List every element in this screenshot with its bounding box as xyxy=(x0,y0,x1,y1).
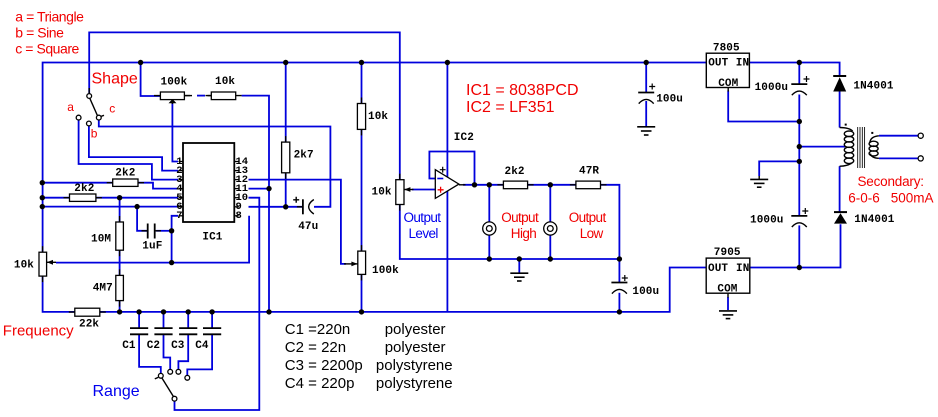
svg-text:OUT: OUT xyxy=(708,58,728,70)
svg-text:100k: 100k xyxy=(372,265,399,277)
resistor 2k2 (pin 5 row) xyxy=(64,194,102,201)
svg-text:8: 8 xyxy=(236,210,242,222)
svg-text:IC2: IC2 xyxy=(454,132,474,144)
wire C3 top lead xyxy=(187,312,189,328)
svg-text:500mA: 500mA xyxy=(891,191,934,206)
svg-text:7905: 7905 xyxy=(714,247,741,259)
wire bus row to IC1 pin 6 xyxy=(42,206,178,208)
svg-text:IN: IN xyxy=(736,58,749,70)
regulator 7905 xyxy=(706,258,750,297)
svg-text:a: a xyxy=(67,100,74,114)
capacitor C4 220p xyxy=(203,328,221,334)
svg-text:1N4001: 1N4001 xyxy=(853,81,894,93)
terminal (secondary top) xyxy=(918,133,923,138)
wire 2k7 bottom lead to pin 9 node xyxy=(285,173,287,207)
capacitor 1000u (raw -V) xyxy=(791,208,808,227)
wire C4 top lead xyxy=(211,312,213,328)
capacitor C2 22n xyxy=(154,328,172,334)
svg-text:7805: 7805 xyxy=(713,43,740,55)
potentiometer 10k output level xyxy=(396,174,414,211)
resistor 2k7 xyxy=(282,136,290,179)
wire switch contact c to 47u coupling cap (square wave) xyxy=(99,120,331,207)
wire output high socket to ground rail xyxy=(488,235,490,259)
resistor 10k (vertical, pin11 node to +5V) xyxy=(357,98,365,136)
wire 2k7 top lead from +5V rail xyxy=(285,63,287,143)
svg-text:6-0-6: 6-0-6 xyxy=(848,191,880,206)
diode D1 1N4001 (+V rectifier) xyxy=(833,76,846,92)
gang link black lead stubs xyxy=(184,95,211,97)
wire output level wiper to IC2 non-inverting input xyxy=(412,189,435,191)
regulator 7805 xyxy=(706,53,749,91)
svg-text:10k: 10k xyxy=(372,187,392,199)
wire 7805 IN to raw +V node and top diode xyxy=(749,63,839,76)
wire transformer secondary bottom lead xyxy=(879,157,918,159)
svg-text:OUT: OUT xyxy=(708,263,728,275)
resistor 10k (ganged with 100k) xyxy=(206,92,242,100)
svg-text:1000u: 1000u xyxy=(750,214,784,226)
wire C1 bottom to range contact A xyxy=(139,335,161,374)
wire ground stem on output ground rail xyxy=(518,259,520,273)
ground (output sockets) xyxy=(510,273,528,281)
IC1 pin numbers right xyxy=(236,156,249,222)
svg-text:1uF: 1uF xyxy=(142,240,162,252)
wire IC1 pin 8 loop down to frequency wiper line xyxy=(56,216,249,263)
wire +5V tap to 100k pot left end xyxy=(141,63,161,97)
capacitor 100u (op-amp -5V rail) xyxy=(611,275,627,294)
svg-text:10k: 10k xyxy=(368,111,388,123)
wire 100u smoothing cap to ground xyxy=(645,101,647,126)
wire C1 top lead xyxy=(138,312,140,328)
wire C3 bottom to range contact C xyxy=(178,335,188,370)
wire output low socket to ground rail xyxy=(549,235,551,259)
wire 1000u top cap to COM/centre-tap column xyxy=(798,95,800,216)
svg-text:COM: COM xyxy=(717,284,737,296)
capacitor 1000u (raw +V) xyxy=(791,76,809,95)
wire ground rail from output level pot bottom to 100u cap xyxy=(400,205,620,260)
capacitor C1 220n xyxy=(130,328,148,334)
svg-text:b = Sine: b = Sine xyxy=(15,25,64,41)
wire IC2 output row through 2k2 and 47R xyxy=(463,185,619,259)
svg-text:100u: 100u xyxy=(656,93,683,105)
wire transformer bottom to bottom diode xyxy=(839,166,841,211)
capacitor 1uF xyxy=(142,224,162,239)
wire C4 bottom to range contact D xyxy=(187,335,212,376)
wire C2 top lead xyxy=(163,312,165,328)
svg-text:Secondary:: Secondary: xyxy=(858,174,924,189)
svg-text:COM: COM xyxy=(718,78,738,90)
svg-text:C4 = 220p: C4 = 220p xyxy=(285,375,355,392)
svg-text:IN: IN xyxy=(736,263,749,275)
IC1 pin stubs left 1-7 xyxy=(179,162,184,216)
svg-text:100u: 100u xyxy=(632,286,659,298)
switch range (1-pole 4-way) xyxy=(155,369,190,401)
resistor 10M xyxy=(116,216,124,256)
op-amp U1 IC2 LF351 triangle xyxy=(435,167,465,199)
wire 100u cap top lead xyxy=(618,259,620,282)
resistor 47R (output low) xyxy=(570,181,607,189)
wire output high socket drop xyxy=(488,185,490,222)
svg-text:4M7: 4M7 xyxy=(93,283,113,295)
wire 100k pot wiper down to IC1 pin 1 xyxy=(172,103,178,162)
svg-text:polyester: polyester xyxy=(385,339,446,356)
svg-text:b: b xyxy=(91,127,98,141)
ground (7905 COM) xyxy=(719,311,737,319)
svg-text:100k: 100k xyxy=(161,76,188,88)
svg-text:polystyrene: polystyrene xyxy=(376,357,453,374)
svg-text:IC1: IC1 xyxy=(202,231,222,243)
wire output low socket drop xyxy=(549,185,551,222)
svg-text:47R: 47R xyxy=(579,165,599,177)
svg-text:Range: Range xyxy=(93,383,140,400)
svg-text:High: High xyxy=(511,226,536,241)
svg-text:Level: Level xyxy=(409,226,439,241)
svg-text:2k2: 2k2 xyxy=(505,166,525,178)
wire raw +V node down through 1000u cap xyxy=(798,63,800,84)
wire -5V rail: 10k pot bottom along bottom to 7905 OUT xyxy=(43,268,707,312)
svg-text:22k: 22k xyxy=(79,318,99,330)
wire IC2 V- supply down to -5V rail xyxy=(446,191,448,312)
capacitor 47u electrolytic (square wave coupling) xyxy=(293,197,314,215)
wire centre column ground branch xyxy=(759,161,799,176)
terminal (secondary bottom) xyxy=(918,156,923,161)
svg-text:IC2 = LF351: IC2 = LF351 xyxy=(466,99,555,116)
svg-text:c: c xyxy=(109,101,115,115)
wire 1uF right plate to junction xyxy=(156,230,171,232)
wire IC2 V+ supply from +5V rail xyxy=(446,63,448,178)
svg-text:2k2: 2k2 xyxy=(74,183,94,195)
svg-text:Output: Output xyxy=(569,210,607,225)
svg-text:Output: Output xyxy=(501,210,539,225)
svg-text:47u: 47u xyxy=(298,221,318,233)
resistor 4M7 xyxy=(116,269,124,306)
svg-text:C3 = 2200p: C3 = 2200p xyxy=(285,357,363,374)
svg-text:1000u: 1000u xyxy=(755,82,789,94)
ground (centre tap) xyxy=(750,176,768,187)
wire 100k pot bottom to -5V rail xyxy=(361,274,363,312)
IC1 pin stubs right 8-14 xyxy=(234,162,239,216)
svg-text:Low: Low xyxy=(580,226,604,241)
capacitor C3 2200p xyxy=(179,328,197,334)
wire bus row through 2k2 to IC1 pin 4 xyxy=(42,183,178,189)
wire 10M bottom to 4M7 top xyxy=(119,250,121,275)
diode D2 1N4001 (-V rectifier) xyxy=(834,212,847,224)
wire 10k right end down to IC1 pin 11 and -5V rail xyxy=(242,96,269,312)
svg-text:polystyrene: polystyrene xyxy=(376,375,453,392)
svg-text:Shape: Shape xyxy=(92,71,138,88)
svg-text:7: 7 xyxy=(176,210,182,222)
wire +5V rail down to 10k vertical resistor xyxy=(361,63,363,104)
switch shape (1-pole 3-way) xyxy=(76,88,104,126)
svg-text:2k7: 2k7 xyxy=(294,150,314,162)
wire raw -V row: 7905 IN to bottom diode xyxy=(750,224,841,267)
wire IC2 feedback loop to inverting input xyxy=(429,152,474,185)
svg-text:Output: Output xyxy=(404,210,442,225)
svg-text:IC1 = 8038PCD: IC1 = 8038PCD xyxy=(466,82,579,99)
wire IC1 pin 9 to 2k7 bottom and 47u left plate xyxy=(249,206,303,208)
capacitor 100u (7805 output smoothing) xyxy=(638,84,655,104)
IC1 pin numbers left xyxy=(176,156,182,222)
ground (100u smoothing) xyxy=(637,127,655,135)
wire IC1 pin 12 to 100k output pot wiper xyxy=(249,180,347,264)
wire 1000u bottom cap to raw -V row xyxy=(798,225,800,267)
wire switch contact a to IC1 pin 3 (triangle) xyxy=(79,120,178,180)
potentiometer 100k (coarse frequency, ganged) xyxy=(154,92,190,104)
wire +5V rail: left bus down to 10k pot, across top to 7805 OUT xyxy=(43,63,707,253)
wire centre tap to transformer xyxy=(799,146,845,148)
wire top diode to transformer top xyxy=(839,92,841,128)
wire pin5 node down to 10M top xyxy=(119,198,121,222)
svg-text:C3: C3 xyxy=(171,340,185,352)
wire bus row through 2k2 to IC1 pin 5 xyxy=(42,197,178,199)
IC1 8038 DIP body xyxy=(183,143,234,222)
resistor 22k (on -5V rail) xyxy=(69,308,106,316)
wire 100u smoothing cap top lead xyxy=(645,63,647,93)
resistor 2k2 (output high) xyxy=(497,181,533,189)
svg-text:10M: 10M xyxy=(91,234,111,246)
svg-text:C1: C1 xyxy=(122,340,136,352)
wire 4M7 bottom to -5V rail xyxy=(119,301,121,312)
transformer T1 xyxy=(840,124,879,168)
svg-text:c = Square: c = Square xyxy=(15,41,79,57)
wire 10k vertical resistor down to 100k pot top xyxy=(361,129,363,251)
wire IC1 pin 11 stub to vertical xyxy=(249,188,270,190)
wire IC1 pin 10 down to range switch pole xyxy=(175,198,260,410)
socket output low xyxy=(544,222,557,235)
svg-text:polyester: polyester xyxy=(385,321,446,338)
wire 1uF junction up to IC1 pin 7 xyxy=(172,216,178,231)
svg-text:10k: 10k xyxy=(215,76,235,88)
socket output high xyxy=(483,222,496,235)
wire transformer secondary top lead xyxy=(879,135,918,137)
wire 100u cap bottom lead to -5V rail xyxy=(618,293,620,312)
wire 7905 COM stem xyxy=(727,297,729,310)
wire C2 bottom to range contact B xyxy=(164,335,171,370)
svg-text:a = Triangle: a = Triangle xyxy=(15,9,84,25)
svg-text:C1 =220n: C1 =220n xyxy=(285,321,350,338)
svg-text:C4: C4 xyxy=(195,340,209,352)
wire gang-link dash between 100k and 10k pots xyxy=(197,95,205,97)
svg-text:C2: C2 xyxy=(147,340,160,352)
svg-text:C2 = 22n: C2 = 22n xyxy=(285,339,346,356)
svg-text:Frequency: Frequency xyxy=(3,322,74,339)
svg-text:1N4001: 1N4001 xyxy=(854,214,895,226)
svg-text:10k: 10k xyxy=(14,260,34,272)
svg-text:2k2: 2k2 xyxy=(115,168,135,180)
wire 7805 COM down and right to centre column xyxy=(728,91,799,122)
wire 1uF junction down to frequency wiper row xyxy=(171,231,173,263)
wire shape-switch pivot to output-level pot top (net: selected waveform) xyxy=(89,32,400,179)
wire switch contact b to IC1 pin 2 (sine) xyxy=(89,126,178,171)
resistor 2k2 (pin 4 row) xyxy=(107,179,144,186)
potentiometer 10k (frequency fine, left) xyxy=(39,246,56,282)
potentiometer 100k (duty/symmetry, below 10k) xyxy=(344,245,366,280)
wire pin6 node down to 1uF left plate xyxy=(137,207,147,231)
